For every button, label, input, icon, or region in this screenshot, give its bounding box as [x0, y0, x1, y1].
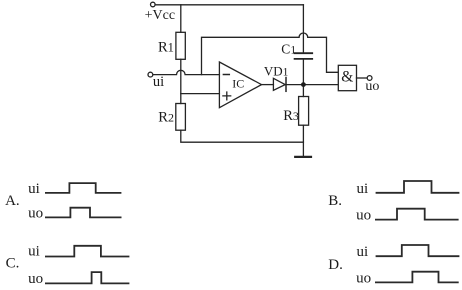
- waveform C uo: [45, 272, 129, 283]
- wire op-amp output to diode: [262, 84, 274, 86]
- resistor R2: [176, 104, 186, 131]
- svg-text:uo: uo: [28, 206, 43, 222]
- waveform A uo: [45, 208, 122, 218]
- resistor R3: [299, 97, 309, 126]
- svg-text:ui: ui: [28, 181, 40, 197]
- waveform C ui: [45, 246, 129, 257]
- wire ui input with hop over R1-R2 line: [153, 70, 219, 74]
- terminal ui: [148, 72, 153, 77]
- wire C1 branch vertical: [302, 5, 304, 53]
- diode VD1: [273, 78, 285, 90]
- svg-text:&: &: [341, 68, 353, 85]
- svg-text:uo: uo: [356, 207, 371, 223]
- wire AND gate output: [357, 77, 368, 79]
- svg-text:+Vcc: +Vcc: [145, 8, 175, 23]
- svg-text:uo: uo: [356, 270, 371, 286]
- svg-text:ui: ui: [28, 243, 40, 259]
- waveform B ui: [376, 181, 460, 193]
- resistor R1: [176, 32, 185, 59]
- waveform D ui: [376, 245, 460, 256]
- svg-text:VD1: VD1: [264, 64, 289, 79]
- svg-text:A.: A.: [5, 193, 20, 209]
- svg-text:B.: B.: [328, 193, 342, 209]
- svg-text:R2: R2: [158, 110, 174, 126]
- op-amp plus sign: [223, 92, 231, 100]
- wire R1 top stub: [180, 5, 182, 33]
- wire R3 bottom to ground: [302, 125, 304, 156]
- wire feedback from inverting input up and right with hop over C1 line: [202, 33, 339, 75]
- op-amp IC: [219, 62, 261, 108]
- svg-text:uo: uo: [365, 79, 379, 94]
- svg-text:uo: uo: [28, 271, 43, 287]
- waveform B uo: [375, 209, 459, 220]
- waveform A ui: [45, 183, 121, 193]
- wire top rail from +Vcc to C1 branch: [155, 4, 303, 6]
- svg-text:R1: R1: [158, 39, 174, 55]
- svg-text:ui: ui: [153, 74, 164, 90]
- svg-text:C1: C1: [281, 42, 296, 57]
- op-amp minus sign: [223, 74, 229, 76]
- wire R1 bottom to R2 top: [180, 59, 182, 103]
- svg-text:C.: C.: [6, 255, 20, 271]
- wire noninverting input from divider node: [181, 93, 220, 95]
- svg-text:ui: ui: [357, 181, 369, 197]
- svg-text:D.: D.: [328, 257, 343, 273]
- wire diode to AND gate: [286, 84, 338, 86]
- svg-text:R3: R3: [283, 108, 299, 124]
- svg-text:IC: IC: [232, 77, 244, 91]
- ground: [295, 156, 311, 158]
- terminal uo: [367, 76, 372, 81]
- wire output node to R3: [302, 85, 304, 97]
- capacitor C1: [295, 53, 313, 59]
- svg-text:ui: ui: [357, 244, 369, 260]
- wire R2 bottom to bottom rail: [181, 130, 304, 142]
- diode VD1 cathode bar: [285, 78, 287, 92]
- waveform D uo: [375, 272, 459, 283]
- node at diode cathode junction: [301, 82, 306, 87]
- wire C1 bottom to output node: [302, 60, 304, 85]
- AND gate U1 box: [338, 65, 356, 90]
- terminal +Vcc: [151, 2, 156, 7]
